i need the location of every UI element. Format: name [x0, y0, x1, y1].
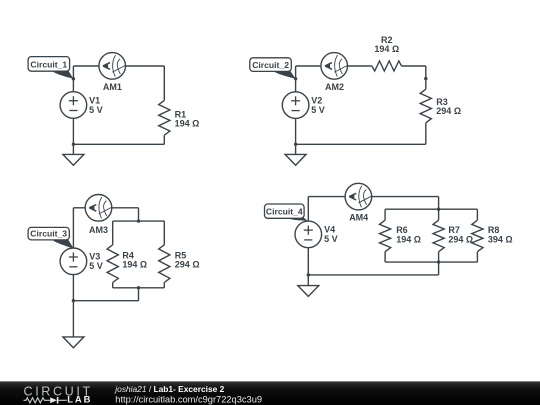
- svg-text:5 V: 5 V: [324, 234, 338, 244]
- svg-text:AM1: AM1: [103, 82, 122, 92]
- svg-text:194 Ω: 194 Ω: [396, 234, 421, 244]
- svg-text:LAB: LAB: [67, 394, 92, 405]
- svg-text:V3: V3: [89, 251, 100, 261]
- svg-text:V4: V4: [324, 225, 335, 235]
- svg-text:joshia21 / Lab1- Excercise 2: joshia21 / Lab1- Excercise 2: [114, 384, 224, 394]
- svg-text:AM2: AM2: [325, 82, 344, 92]
- svg-text:Circuit_4: Circuit_4: [266, 207, 303, 217]
- svg-text:194 Ω: 194 Ω: [175, 119, 200, 129]
- svg-text:394 Ω: 394 Ω: [488, 234, 513, 244]
- svg-text:294 Ω: 294 Ω: [175, 260, 200, 270]
- svg-text:AM4: AM4: [349, 213, 368, 223]
- svg-text:5 V: 5 V: [89, 261, 103, 271]
- svg-text:Circuit_3: Circuit_3: [30, 228, 67, 238]
- svg-text:V1: V1: [89, 95, 100, 105]
- svg-text:5 V: 5 V: [311, 105, 325, 115]
- svg-text:AM3: AM3: [89, 225, 108, 235]
- svg-text:5 V: 5 V: [89, 105, 103, 115]
- svg-text:194 Ω: 194 Ω: [122, 260, 147, 270]
- svg-text:294 Ω: 294 Ω: [448, 234, 473, 244]
- svg-text:http://circuitlab.com/c9gr722q: http://circuitlab.com/c9gr722q3c3u9: [115, 394, 262, 404]
- svg-text:294 Ω: 294 Ω: [436, 106, 461, 116]
- svg-text:194 Ω: 194 Ω: [374, 44, 399, 54]
- svg-text:Circuit_1: Circuit_1: [30, 60, 67, 70]
- svg-text:Circuit_2: Circuit_2: [252, 60, 289, 70]
- svg-text:V2: V2: [311, 95, 322, 105]
